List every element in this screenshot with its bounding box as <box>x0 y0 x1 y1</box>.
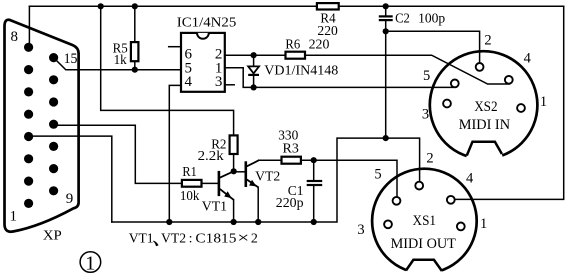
XS1 pin 4 hole <box>447 196 455 204</box>
label transistor types caption <box>153 241 159 247</box>
node junction top rail R5 <box>132 3 138 9</box>
XS1 pin 2 hole <box>415 182 423 190</box>
wire C2 to XS2 pin 2 <box>386 31 480 62</box>
resistor R2 <box>230 135 238 154</box>
svg-text:XS1: XS1 <box>413 213 437 229</box>
wire IC pin 4 to ground <box>169 85 181 222</box>
svg-text:220p: 220p <box>276 196 304 211</box>
XP pin 1 <box>24 199 33 208</box>
svg-text:3: 3 <box>422 106 429 122</box>
svg-text:3: 3 <box>215 74 223 90</box>
svg-text:1: 1 <box>480 216 487 232</box>
XS1 pin 1 hole <box>457 223 465 231</box>
svg-text:IC1/4N25: IC1/4N25 <box>177 15 237 30</box>
wire IC pin 3 stub <box>225 84 234 86</box>
wire R5 bottom <box>134 61 136 69</box>
wire R2 feed <box>101 6 234 135</box>
XS2 pin 5 hole <box>451 80 459 88</box>
wire VT2 collector to R3 <box>259 159 282 161</box>
svg-text:1: 1 <box>540 94 547 110</box>
node junction C2 bottom <box>383 28 389 34</box>
XP pin 5 <box>24 110 33 119</box>
XP pin 11 <box>49 142 58 151</box>
node junction VT1 collector <box>231 168 237 174</box>
svg-text:XS2: XS2 <box>474 99 497 115</box>
node junction R3 C1 <box>311 157 317 163</box>
wire IC pin 6 stub <box>169 46 181 48</box>
XP pin 3 <box>24 154 33 163</box>
svg-text:220: 220 <box>317 24 337 39</box>
svg-text:2.2k: 2.2k <box>198 149 224 164</box>
wire C2 bottom to ground <box>385 21 387 139</box>
svg-text:C2100p: C2100p <box>395 11 445 26</box>
resistor R1 <box>182 180 202 187</box>
XP pin 13 <box>49 97 58 106</box>
XP pin 14 <box>49 75 58 84</box>
svg-text:R1: R1 <box>182 165 196 180</box>
resistor R4 <box>317 3 339 9</box>
resistor R5 <box>131 42 139 61</box>
svg-text:2: 2 <box>484 33 491 49</box>
svg-text:2: 2 <box>426 150 433 166</box>
XP pin 4 <box>24 132 33 141</box>
wire VT2 emitter to ground <box>257 187 259 222</box>
wire C1 top lead <box>313 160 315 180</box>
svg-text:5: 5 <box>374 167 381 183</box>
wire R1 to VT1 base <box>201 182 218 184</box>
XS1 pin 5 hole <box>393 197 401 205</box>
node junction VT1 emitter ground <box>231 219 237 225</box>
node junction VT2 emitter ground <box>255 219 261 225</box>
wire IC pin 2 to R6 <box>225 54 286 56</box>
svg-text:1: 1 <box>9 209 17 225</box>
svg-text:VT2: VT2 <box>255 169 280 184</box>
XP pin 12 <box>49 120 58 129</box>
node junction top rail R2 feed <box>98 3 104 9</box>
connector XP (DB-15) <box>5 20 79 232</box>
wire node to VT2 base <box>234 171 246 173</box>
XP pin 10 <box>49 164 58 173</box>
wire IC pin 1 to XS2 pin 5 <box>225 68 453 88</box>
svg-text:4: 4 <box>184 74 192 90</box>
wire C2 top lead <box>385 6 387 16</box>
wire VT1 emitter to ground <box>233 200 235 222</box>
svg-text:MIDI OUT: MIDI OUT <box>391 236 456 252</box>
wire ground rail <box>112 138 420 222</box>
XP pin 9 <box>49 186 58 195</box>
transistor VT2 <box>245 160 260 187</box>
node junction R5 bottom <box>132 67 138 73</box>
svg-text:3: 3 <box>357 222 364 238</box>
svg-text:4: 4 <box>524 50 532 66</box>
connector XS1 MIDI OUT (DIN-5) <box>372 169 477 276</box>
node junction IC pin 4 ground <box>166 219 172 225</box>
XP pin 15 <box>49 53 58 62</box>
wire top rail right (+V) <box>339 5 564 7</box>
XP pin 7 <box>24 65 33 74</box>
XP pin 6 <box>24 87 33 96</box>
resistor R6 <box>286 52 306 59</box>
wire XP pin 15 to IC pin 5 <box>54 58 181 70</box>
XS2 pin 1 hole <box>517 104 525 112</box>
wire R2 bottom to node <box>233 154 235 171</box>
svg-text:5: 5 <box>423 68 430 84</box>
svg-text:1: 1 <box>85 253 95 275</box>
resistor R3 <box>282 157 301 164</box>
XS1 pin 3 hole <box>384 220 392 228</box>
wire top rail left (+V) <box>29 5 317 7</box>
node junction C1 ground <box>311 219 317 225</box>
wire R5 riser <box>134 6 136 42</box>
svg-text:9: 9 <box>66 191 74 207</box>
opto-coupler IC1 4N25 <box>181 33 225 92</box>
wire C1 bottom lead <box>313 186 315 222</box>
XS2 pin 3 hole <box>443 100 451 108</box>
wire XP pin 8 riser <box>28 6 30 47</box>
wire XP pin 12 to R1 <box>54 125 182 183</box>
XS2 pin 2 hole <box>476 63 484 71</box>
svg-text:15: 15 <box>64 51 78 67</box>
svg-text:R3: R3 <box>283 142 299 157</box>
capacitor C1 <box>307 181 323 185</box>
wire R3 to XS1 pin 5 <box>301 160 397 196</box>
XS2 pin 4 hole <box>505 76 513 84</box>
svg-text:4: 4 <box>466 171 474 187</box>
XP pin 2 <box>24 177 33 186</box>
transistor VT1 <box>218 171 234 200</box>
svg-text:VD1/IN4148: VD1/IN4148 <box>264 64 338 79</box>
wire XP pin 4 to ground <box>29 136 112 222</box>
wire R6 to XS2 pin 4 <box>305 55 509 84</box>
svg-text:VT1: VT1 <box>202 199 227 214</box>
node junction ground C2 <box>383 135 389 141</box>
figure number circled 1 <box>80 252 101 275</box>
diode VD1 <box>248 52 259 90</box>
svg-text:10k: 10k <box>180 189 200 204</box>
connector XS2 MIDI IN (DIN-5) <box>430 51 538 163</box>
svg-text:8: 8 <box>10 29 18 45</box>
svg-text:1k: 1k <box>114 53 127 68</box>
XP pin 8 <box>24 43 33 52</box>
node junction top rail C2 <box>383 3 389 9</box>
capacitor C2 <box>379 16 393 20</box>
svg-text:MIDI IN: MIDI IN <box>459 117 511 133</box>
wire right edge to XS1 pin 4 <box>455 6 564 199</box>
svg-text:XP: XP <box>43 228 62 243</box>
